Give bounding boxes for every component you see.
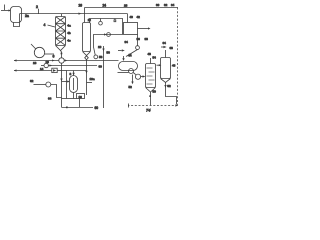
svg-text:30: 30 <box>156 3 160 7</box>
svg-text:58: 58 <box>99 55 103 59</box>
svg-text:60: 60 <box>95 106 99 110</box>
svg-text:10: 10 <box>98 45 102 49</box>
svg-text:74: 74 <box>146 108 151 113</box>
svg-text:24: 24 <box>103 3 107 7</box>
svg-text:2: 2 <box>36 5 38 9</box>
svg-text:16: 16 <box>79 95 83 99</box>
svg-text:6: 6 <box>53 55 55 59</box>
svg-text:34: 34 <box>171 3 175 7</box>
svg-text:52: 52 <box>129 85 133 89</box>
svg-text:46: 46 <box>172 64 176 68</box>
svg-text:54: 54 <box>153 55 157 59</box>
svg-text:10a: 10a <box>90 77 95 81</box>
svg-text:50: 50 <box>153 90 157 94</box>
svg-text:60: 60 <box>99 65 103 69</box>
svg-text:38: 38 <box>145 37 149 41</box>
svg-text:56: 56 <box>107 51 111 55</box>
svg-text:40: 40 <box>130 15 134 19</box>
svg-text:68: 68 <box>170 46 174 50</box>
svg-text:36: 36 <box>137 37 141 41</box>
svg-text:4b: 4b <box>67 31 71 35</box>
svg-text:32: 32 <box>164 3 168 7</box>
svg-text:18: 18 <box>46 60 50 64</box>
svg-text:62: 62 <box>30 79 34 83</box>
svg-text:64: 64 <box>48 97 52 101</box>
svg-text:2a: 2a <box>25 14 29 18</box>
svg-text:44: 44 <box>128 54 132 58</box>
svg-text:4: 4 <box>44 23 46 27</box>
svg-text:16: 16 <box>33 61 37 65</box>
svg-text:28: 28 <box>124 3 128 7</box>
svg-text:14: 14 <box>40 67 44 71</box>
svg-text:42: 42 <box>137 15 141 19</box>
svg-text:62: 62 <box>167 84 171 88</box>
svg-text:48: 48 <box>148 52 152 56</box>
svg-text:64: 64 <box>163 41 167 45</box>
svg-text:26: 26 <box>79 4 83 8</box>
svg-text:34: 34 <box>125 40 129 44</box>
svg-text:4a: 4a <box>67 24 71 28</box>
svg-text:4c: 4c <box>67 39 71 43</box>
